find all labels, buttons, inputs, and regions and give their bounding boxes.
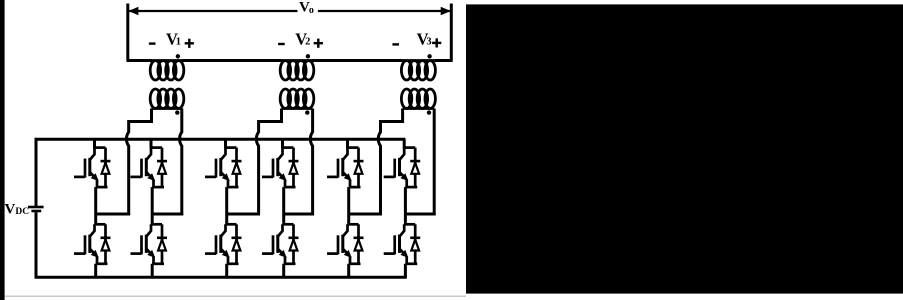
wire: leg 3 top stub from rail [224, 139, 227, 148]
polarity dot T3 secondary [427, 54, 431, 58]
IGBT switch S1b (bottom) with freewheel diode [74, 224, 111, 263]
IGBT switch S6b (bottom) with freewheel diode [384, 224, 421, 263]
wire: leg 4 midpoint connection [284, 213, 314, 216]
polarity dot T2 secondary [306, 54, 310, 58]
IGBT switch S2a (top) with freewheel diode [131, 148, 168, 188]
IGBT switch S5a (top) with freewheel diode [327, 148, 364, 188]
wire: right secondary terminal riser [450, 4, 453, 61]
wire: leg 6 top stub from rail [403, 139, 406, 148]
wire: leg 2 midpoint vertical [151, 187, 154, 225]
wire: leg 1 bottom exit to rail [94, 264, 97, 279]
wire: secondary series segment 1 [127, 59, 152, 62]
wire: leg 5 midpoint vertical [347, 187, 350, 225]
wire: T3 primary left lead [378, 109, 402, 216]
svg-text:o: o [309, 5, 314, 16]
wire: leg 4 top stub from rail [281, 139, 284, 148]
wire: leg 1 midpoint vertical [94, 187, 97, 225]
transformer T3 secondary winding [401, 61, 435, 81]
wire: leg 6 midpoint vertical [404, 187, 407, 225]
label Vo [299, 0, 314, 16]
wire: leg 1 top stub from rail [93, 139, 96, 148]
wire: T1 primary right lead [180, 109, 182, 216]
wire: leg 6 midpoint connection [405, 213, 435, 216]
wire: leg 1 midpoint connection [96, 213, 130, 216]
label V3 [417, 29, 432, 48]
polarity dot T2 primary [305, 110, 309, 114]
svg-text:1: 1 [176, 37, 181, 48]
wire: leg 2 bottom exit to rail [151, 264, 154, 279]
wire: leg 3 midpoint vertical [225, 187, 228, 225]
wire: T1 primary left lead [126, 109, 151, 216]
wire: left bus vertical (source) [35, 138, 38, 279]
wire: secondary series segment 3 [313, 59, 403, 62]
label plus sign of V1 [185, 39, 194, 48]
wire: T3 primary right lead [433, 109, 436, 216]
wire: leg 5 top stub from rail [346, 139, 349, 148]
IGBT switch S6a (top) with freewheel diode [384, 148, 421, 188]
dimension arrow Vo span [128, 7, 450, 15]
IGBT switch S1a (top) with freewheel diode [74, 148, 111, 188]
wire: secondary series segment 4 [434, 59, 452, 62]
svg-text:3: 3 [426, 37, 431, 48]
IGBT switch S4a (top) with freewheel diode [262, 148, 299, 188]
label VDC [5, 202, 30, 218]
polarity dot T3 primary [427, 110, 431, 114]
wire: top DC rail [35, 138, 406, 141]
wire: leg 3 bottom exit to rail [225, 264, 228, 279]
wire: leg 4 bottom exit to rail [282, 264, 285, 279]
polarity dot T1 secondary [176, 54, 180, 58]
page rule line at bottom [5, 295, 466, 297]
black panel on right [466, 4, 903, 293]
wire: leg 2 midpoint connection [152, 213, 183, 216]
wire: T2 primary left lead [256, 109, 281, 216]
label plus sign of V2 [314, 39, 323, 48]
label minus sign of V1 [149, 42, 156, 44]
transformer T1 primary winding [150, 89, 184, 109]
page left black border band [0, 0, 5, 300]
transformer T3 primary winding [401, 89, 435, 109]
wire: T2 primary right lead [310, 109, 312, 216]
wire: leg 2 top stub from rail [150, 139, 153, 148]
svg-text:2: 2 [305, 37, 310, 48]
IGBT switch S2b (bottom) with freewheel diode [131, 224, 168, 263]
polarity dot T1 primary [175, 110, 179, 114]
wire: secondary series segment 2 [183, 59, 282, 62]
label minus sign of V2 [278, 43, 285, 45]
wire: leg 3 midpoint connection [227, 213, 260, 216]
transformer T1 secondary winding [150, 61, 184, 81]
label V2 [295, 29, 310, 48]
IGBT switch S4b (bottom) with freewheel diode [262, 224, 299, 263]
IGBT switch S3a (top) with freewheel diode [205, 148, 242, 188]
IGBT switch S3b (bottom) with freewheel diode [205, 224, 242, 263]
wire: left secondary terminal riser [126, 4, 129, 61]
IGBT switch S5b (bottom) with freewheel diode [327, 224, 364, 263]
label minus sign of V3 [392, 43, 399, 45]
wire: leg 6 bottom exit to rail [404, 264, 407, 279]
battery VDC plates [28, 206, 44, 213]
transformer T2 secondary winding [280, 61, 314, 81]
wire: leg 5 midpoint connection [349, 213, 382, 216]
wire: bottom DC rail [35, 276, 407, 279]
wire: leg 5 bottom exit to rail [347, 264, 350, 279]
wire: leg 4 midpoint vertical [282, 187, 285, 225]
transformer T2 primary winding [280, 89, 314, 109]
label plus sign of V3 [432, 38, 441, 47]
label V1 [166, 29, 181, 48]
